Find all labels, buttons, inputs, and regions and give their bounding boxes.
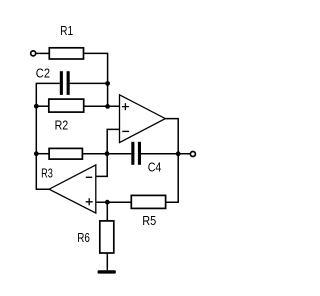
wire R2 left <box>36 105 49 107</box>
wire R3 left <box>36 153 49 155</box>
node C2-right junction <box>105 81 110 86</box>
node R3/C4 junction <box>105 151 110 156</box>
svg-text:R1: R1 <box>60 23 73 38</box>
resistor R2 <box>49 99 84 112</box>
svg-text:C4: C4 <box>148 160 162 175</box>
resistor R5 <box>131 195 165 208</box>
U1 plus symbol <box>122 103 129 110</box>
ground <box>98 270 116 273</box>
node R2-left junction <box>34 104 39 109</box>
wire R3 right to C4 <box>82 153 131 155</box>
U2 minus symbol <box>86 176 92 178</box>
node output junction <box>176 151 181 156</box>
node R2-right junction <box>105 104 110 109</box>
svg-text:R2: R2 <box>55 118 69 133</box>
svg-text:R5: R5 <box>142 213 156 228</box>
node R3-left junction <box>34 151 39 156</box>
wire input to R1 <box>36 52 49 54</box>
wire R6 bottom <box>106 253 108 270</box>
input terminal <box>31 51 36 56</box>
wire C2 right <box>70 82 109 84</box>
wire C2 left <box>36 82 60 84</box>
wire R2 right to op-amp U1 plus input <box>84 105 120 107</box>
wire C4 right to output <box>141 153 190 155</box>
node R6-top junction <box>105 200 110 205</box>
resistor R3 <box>49 148 82 159</box>
wire R1 right to node column <box>84 53 107 106</box>
resistor R1 <box>49 48 83 59</box>
op-amp U2 <box>49 165 96 213</box>
resistor R6 <box>100 221 114 253</box>
U2 plus symbol <box>86 198 93 205</box>
output terminal <box>190 152 195 157</box>
wire left vertical bus <box>36 83 49 190</box>
svg-text:R6: R6 <box>77 230 90 245</box>
wire R6 top <box>106 202 108 220</box>
op-amp U1 <box>120 95 166 143</box>
wire U2 plus input / R5 left <box>96 201 131 203</box>
svg-text:C2: C2 <box>36 65 50 80</box>
capacitor C4 <box>131 142 141 165</box>
wire U1 minus input <box>96 129 120 176</box>
capacitor C2 <box>60 71 70 95</box>
wire U1 output down to R5 <box>165 119 179 203</box>
U1 minus symbol <box>122 130 129 132</box>
svg-text:R3: R3 <box>41 165 53 180</box>
